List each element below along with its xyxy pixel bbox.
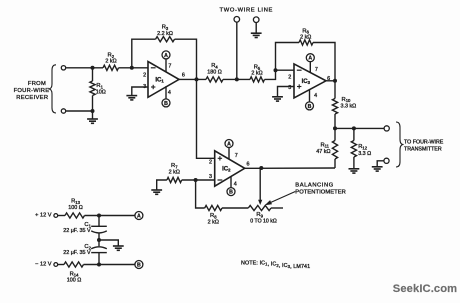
svg-text:R3: R3 xyxy=(162,25,169,31)
svg-text:TWO-WIRE LINE: TWO-WIRE LINE xyxy=(220,7,274,13)
svg-text:A: A xyxy=(308,56,312,62)
svg-text:100 Ω: 100 Ω xyxy=(68,205,83,211)
label IC2 xyxy=(222,166,231,172)
svg-text:6: 6 xyxy=(182,73,185,79)
svg-text:R11: R11 xyxy=(320,142,329,148)
wire: IC1 pin 7 lead xyxy=(165,59,167,72)
node B on IC3 pin 4 xyxy=(306,102,314,110)
wire xyxy=(276,43,300,71)
svg-text:POTENTIOMETER: POTENTIOMETER xyxy=(295,189,346,195)
IC3 minus input mark xyxy=(297,69,302,71)
pin 6 label IC3 xyxy=(327,76,330,82)
svg-text:R8: R8 xyxy=(210,213,217,219)
terminal: receiver input bottom xyxy=(61,109,65,113)
pin 2 label IC1 xyxy=(143,72,146,78)
potentiometer R9 xyxy=(248,205,271,210)
watermark SeekIC.com xyxy=(393,283,457,295)
label R9 xyxy=(250,212,277,224)
svg-text:0 TO 10 kΩ: 0 TO 10 kΩ xyxy=(250,219,277,225)
op-amp IC1 xyxy=(148,62,179,98)
node A on IC1 pin 7 xyxy=(162,51,170,59)
junction xyxy=(235,77,239,81)
wire xyxy=(98,216,100,227)
svg-text:100 Ω: 100 Ω xyxy=(67,278,82,284)
svg-text:FROM: FROM xyxy=(28,81,46,87)
wire xyxy=(278,87,295,97)
resistor R13 xyxy=(65,213,85,218)
resistor R14 xyxy=(64,262,84,267)
pin 4 label IC1 xyxy=(168,90,171,96)
wire xyxy=(99,240,118,246)
wire xyxy=(84,264,135,266)
svg-text:6: 6 xyxy=(247,162,250,168)
ground xyxy=(349,169,360,173)
wire xyxy=(245,167,335,169)
svg-text:180 Ω: 180 Ω xyxy=(207,70,222,76)
resistor R5 xyxy=(250,77,265,82)
resistor R3 xyxy=(156,37,175,42)
resistor R6 xyxy=(299,40,313,45)
pin 3 label IC3 xyxy=(288,85,291,91)
terminal: transmitter bottom xyxy=(384,158,389,163)
resistor R4 xyxy=(206,77,223,82)
ground xyxy=(151,190,162,194)
brace for four-wire transmitter terminals xyxy=(396,122,404,167)
pin 4 label IC3 xyxy=(314,93,317,99)
label R6 xyxy=(300,28,311,40)
annotation arrow to R9 wiper xyxy=(265,192,296,206)
wire xyxy=(175,39,197,79)
IC2 plus input mark xyxy=(218,156,222,160)
wire xyxy=(119,67,149,69)
terminal: transmitter top xyxy=(384,126,389,131)
junction xyxy=(274,68,278,72)
label R10 xyxy=(341,97,357,110)
label IC3 xyxy=(302,79,311,85)
pin 3 label IC2 xyxy=(209,174,212,180)
pin 7 label IC2 xyxy=(235,153,238,159)
ground xyxy=(126,96,137,100)
node B on IC2 pin 4 xyxy=(227,188,235,196)
pin 6 label IC1 xyxy=(182,73,185,79)
node B on IC1 pin 4 xyxy=(162,99,170,107)
svg-text:− 12 V: − 12 V xyxy=(35,262,52,268)
IC2 minus input mark xyxy=(218,179,223,181)
wire xyxy=(58,264,64,266)
pin 2 label IC2 xyxy=(209,159,212,165)
label R8 xyxy=(208,213,219,226)
junction xyxy=(333,79,337,83)
wire xyxy=(313,43,335,81)
label R1 xyxy=(96,83,106,96)
wire xyxy=(132,87,148,96)
wire xyxy=(271,207,283,209)
op-amp IC2 xyxy=(215,151,245,186)
wire xyxy=(157,180,167,190)
svg-text:R12: R12 xyxy=(358,144,368,150)
brace for four-wire receiver terminals xyxy=(49,65,57,113)
label R12 xyxy=(358,144,371,157)
IC1 plus input mark xyxy=(151,85,155,89)
junction xyxy=(130,66,134,70)
svg-text:47 kΩ: 47 kΩ xyxy=(316,149,330,155)
note text xyxy=(241,260,310,270)
resistor R8 xyxy=(205,205,222,210)
wire xyxy=(222,207,248,209)
wire xyxy=(276,69,295,71)
pin 6 label IC2 xyxy=(247,162,250,168)
terminal: +12 V xyxy=(54,214,58,218)
svg-text:+ 12 V: + 12 V xyxy=(35,212,52,218)
node: FROM FOUR-WIRE RECEIVER label xyxy=(14,81,50,101)
svg-text:TO FOUR-WIRE: TO FOUR-WIRE xyxy=(404,139,444,145)
label R11 xyxy=(316,142,330,155)
capacitor C1 xyxy=(91,226,107,240)
pin 3 label IC1 xyxy=(143,84,146,90)
pin 7 label IC3 xyxy=(315,67,318,73)
wire xyxy=(58,215,65,217)
ground xyxy=(251,33,262,37)
svg-text:3.3 kΩ: 3.3 kΩ xyxy=(341,104,357,110)
node: TWO-WIRE LINE label xyxy=(220,7,274,13)
wire xyxy=(377,161,384,167)
label IC1 xyxy=(155,77,164,83)
svg-text:RECEIVER: RECEIVER xyxy=(16,95,48,101)
wire xyxy=(265,70,276,79)
node B terminal (supply) xyxy=(135,261,143,269)
svg-text:IC2: IC2 xyxy=(222,166,231,172)
resistor R10 xyxy=(332,81,337,129)
wire: R9 wiper xyxy=(258,168,262,205)
svg-text:SeekIC.com: SeekIC.com xyxy=(393,283,457,295)
terminal: receiver input top xyxy=(61,66,65,70)
terminal: two-wire line right xyxy=(253,17,259,23)
svg-text:4: 4 xyxy=(168,90,171,96)
junction xyxy=(259,166,263,170)
wire: IC3 pin 7 lead xyxy=(309,61,311,72)
svg-text:IC1: IC1 xyxy=(155,77,164,83)
wire xyxy=(132,39,156,68)
svg-text:A: A xyxy=(227,141,231,147)
svg-text:A: A xyxy=(164,53,168,59)
IC3 plus input mark xyxy=(297,84,301,88)
terminal: -12 V xyxy=(54,263,58,267)
junction xyxy=(352,126,356,130)
wire: IC3 pin 4 lead xyxy=(309,90,311,103)
pin 7 label IC1 xyxy=(168,64,171,70)
svg-text:10Ω: 10Ω xyxy=(96,90,106,96)
svg-text:2 kΩ: 2 kΩ xyxy=(251,71,262,77)
svg-text:2.2 kΩ: 2.2 kΩ xyxy=(157,31,173,37)
wire: IC1 pin 4 lead xyxy=(165,86,167,99)
svg-text:22 μF. 35 V: 22 μF. 35 V xyxy=(63,250,91,256)
svg-text:7: 7 xyxy=(168,64,171,70)
svg-text:R9: R9 xyxy=(256,212,263,218)
svg-text:B: B xyxy=(164,101,168,107)
svg-text:3.3 Ω: 3.3 Ω xyxy=(358,151,371,157)
wire: IC2 pin 7 lead xyxy=(228,147,230,159)
node A on IC2 pin 7 xyxy=(225,140,233,148)
svg-text:B: B xyxy=(137,262,141,268)
svg-text:R4: R4 xyxy=(211,63,218,69)
resistor R11 xyxy=(332,128,337,168)
svg-text:22 μF. 35 V: 22 μF. 35 V xyxy=(63,228,91,234)
svg-text:7: 7 xyxy=(315,67,318,73)
wire xyxy=(255,23,257,34)
label C2 xyxy=(63,244,91,256)
resistor R1 xyxy=(90,68,95,111)
label R7 xyxy=(169,163,180,175)
label C1 xyxy=(63,222,91,234)
svg-text:4: 4 xyxy=(314,93,317,99)
wire xyxy=(335,127,384,129)
svg-text:B: B xyxy=(308,104,312,110)
wire xyxy=(236,22,238,79)
wire xyxy=(66,110,92,112)
junction xyxy=(91,109,95,113)
svg-text:2 kΩ: 2 kΩ xyxy=(208,220,219,226)
wire xyxy=(326,80,335,82)
junction xyxy=(97,238,101,242)
junction xyxy=(97,214,101,218)
svg-text:2: 2 xyxy=(143,72,146,78)
label R2 xyxy=(105,53,116,65)
junction xyxy=(97,263,101,267)
svg-text:TRANSMITTER: TRANSMITTER xyxy=(404,146,442,152)
label R5 xyxy=(251,65,262,77)
label R3 xyxy=(157,25,173,38)
wire xyxy=(196,180,205,208)
ground xyxy=(372,167,383,171)
ground xyxy=(87,119,98,123)
svg-text:B: B xyxy=(229,190,233,196)
svg-text:4: 4 xyxy=(234,182,237,188)
svg-text:FOUR-WIRE: FOUR-WIRE xyxy=(14,88,50,94)
resistor R2 xyxy=(103,65,119,70)
ground xyxy=(113,246,124,250)
svg-text:2 kΩ: 2 kΩ xyxy=(169,169,180,175)
label -12 V xyxy=(35,262,52,268)
node A terminal (supply) xyxy=(135,212,143,220)
pin 2 label IC3 xyxy=(288,74,291,80)
capacitor C2 xyxy=(91,240,107,265)
label R13 xyxy=(68,199,83,211)
wire xyxy=(197,79,215,158)
svg-text:2: 2 xyxy=(288,74,291,80)
svg-text:R1: R1 xyxy=(96,83,103,89)
junction xyxy=(195,77,199,81)
wire xyxy=(66,67,103,69)
label R14 xyxy=(67,271,82,283)
pin 4 label IC2 xyxy=(234,182,237,188)
junction xyxy=(91,66,95,70)
wire xyxy=(85,215,136,217)
svg-text:R10: R10 xyxy=(342,97,352,103)
label R4 xyxy=(207,63,222,75)
junction xyxy=(333,126,337,130)
label +12 V xyxy=(35,212,52,218)
junction xyxy=(194,178,198,182)
wire xyxy=(182,179,215,181)
svg-text:A: A xyxy=(137,213,141,219)
resistor R12 xyxy=(351,128,356,168)
svg-text:7: 7 xyxy=(235,153,238,159)
node: TO FOUR-WIRE TRANSMITTER label xyxy=(404,139,444,152)
label: BALANCING POTENTIOMETER xyxy=(295,182,346,195)
terminal: two-wire line left xyxy=(234,17,240,23)
wire: IC2 pin 4 lead xyxy=(230,177,232,188)
wire xyxy=(223,78,250,80)
op-amp IC3 xyxy=(294,64,326,98)
wire xyxy=(179,78,206,80)
svg-text:IC3: IC3 xyxy=(302,79,311,85)
svg-text:2: 2 xyxy=(209,159,212,165)
svg-text:2 kΩ: 2 kΩ xyxy=(105,59,116,65)
svg-text:2 kΩ: 2 kΩ xyxy=(300,35,311,41)
svg-text:BALANCING: BALANCING xyxy=(295,182,333,188)
resistor R7 xyxy=(167,177,182,182)
ground xyxy=(272,97,283,101)
node A on IC3 pin 7 xyxy=(306,54,314,62)
IC1 minus input mark xyxy=(151,67,156,69)
wire xyxy=(92,111,94,119)
